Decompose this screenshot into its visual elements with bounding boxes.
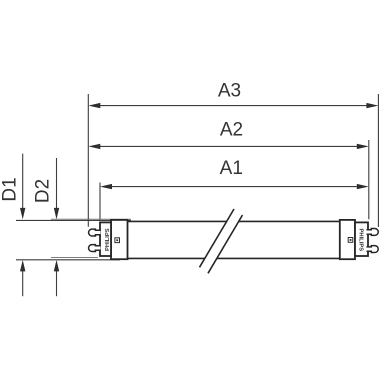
- break symbol (double slash): [200, 209, 243, 273]
- extension line D1 top (glass top): [16, 219, 131, 221]
- svg-text:PHILIPS: PHILIPS: [105, 228, 111, 251]
- extension line right pins (A3): [377, 94, 379, 227]
- right collar: [340, 220, 355, 259]
- svg-text:D2: D2: [33, 179, 54, 203]
- extension line D2 top (collar top): [51, 218, 131, 220]
- svg-text:D1: D1: [0, 177, 21, 201]
- svg-text:PHILIPS: PHILIPS: [358, 229, 364, 252]
- right pin top: [367, 229, 379, 236]
- left cap band: [100, 222, 111, 256]
- left collar: [111, 220, 128, 259]
- extension line left cap face (A1): [99, 183, 101, 221]
- tube glass top edge: [128, 220, 340, 222]
- extension line D1 bottom: [16, 259, 120, 261]
- dimension line D1: [20, 154, 25, 297]
- dimension line A2: [88, 144, 369, 149]
- extension line left pins (A2/A3): [87, 94, 89, 227]
- dimension line A3: [88, 103, 378, 108]
- left insulation symbol: [115, 238, 120, 243]
- left pin top: [89, 229, 101, 236]
- right pin bottom: [367, 246, 379, 253]
- extension line right cap face (A1/A2): [368, 140, 370, 219]
- svg-text:A2: A2: [220, 119, 243, 140]
- left pin bottom: [89, 245, 101, 252]
- extension line D2 bottom: [51, 256, 98, 258]
- dimension line A1: [100, 184, 369, 189]
- svg-text:A3: A3: [218, 81, 241, 102]
- right insulation symbol: [348, 238, 353, 243]
- right cap band: [355, 222, 368, 256]
- svg-text:A1: A1: [220, 158, 243, 179]
- tube glass bottom edge: [128, 257, 340, 259]
- dimension line D2: [54, 158, 59, 296]
